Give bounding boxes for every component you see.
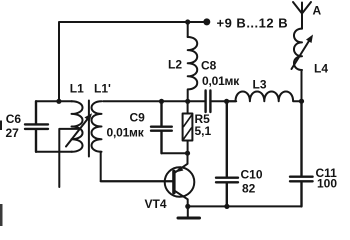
wire L1' bottom to transistor base <box>101 152 173 182</box>
inductor L1' <box>92 101 102 152</box>
node A1 feedback/rail junction <box>56 99 61 104</box>
svg-text:27: 27 <box>6 126 20 140</box>
capacitor C8 <box>206 91 211 113</box>
node L2 bottom / R5 top junction <box>185 99 190 104</box>
node C10 top / L3 left junction <box>224 99 229 104</box>
wire mid rail left from C6 to L1 top <box>36 100 72 102</box>
svg-text:5,1: 5,1 <box>195 124 212 138</box>
wire L1 tap down-lead (to modulator, cut off) <box>59 129 78 187</box>
arrow variable adjustment through L1 <box>66 117 90 147</box>
node C10 bottom junction <box>224 204 229 209</box>
wire top feedback rail +9V from node A1 to supply terminal <box>59 22 205 101</box>
svg-text:L2: L2 <box>168 58 182 72</box>
node C9 top junction <box>159 99 164 104</box>
wire mid rail right from L1' top to C8 <box>103 100 205 102</box>
svg-text:0,01мк: 0,01мк <box>107 126 145 140</box>
wire C8 right plate to C10/L3 node <box>212 100 237 102</box>
svg-text:L4: L4 <box>314 62 328 76</box>
wire transistor base lead <box>101 180 173 182</box>
svg-text:C9: C9 <box>130 111 146 125</box>
transistor VT4 <box>165 167 195 197</box>
svg-text:L3: L3 <box>253 78 267 92</box>
svg-text:100: 100 <box>317 177 337 191</box>
arrow variable adjustment through L4 <box>292 39 311 70</box>
node L2 top junction <box>185 19 190 24</box>
capacitor C10 <box>216 101 238 206</box>
node R5 bottom / emitter junction <box>185 151 190 156</box>
svg-text:C8: C8 <box>201 59 217 73</box>
node L4 / C11 column junction <box>299 99 304 104</box>
core line of L1/L1' transformer <box>88 101 90 157</box>
svg-text:+9 В...12 В: +9 В...12 В <box>217 16 289 31</box>
svg-text:L1': L1' <box>94 82 111 96</box>
svg-text:L1: L1 <box>70 82 84 96</box>
capacitor C11 <box>290 101 313 206</box>
svg-text:VT4: VT4 <box>145 197 167 211</box>
antenna A <box>293 2 311 14</box>
inductor L1 <box>72 101 83 152</box>
inductor L4 <box>294 29 302 102</box>
svg-text:82: 82 <box>242 182 256 196</box>
capacitor C6 <box>25 101 48 152</box>
supply terminal dot <box>203 18 210 25</box>
wire C9 bottom to emitter node <box>162 152 188 154</box>
wire C6 bottom to L1 bottom <box>36 151 72 153</box>
wire L2 top lead to supply rail <box>187 22 189 37</box>
wire bottom rail <box>188 205 302 207</box>
inductor L3 <box>227 91 302 101</box>
svg-text:A: A <box>313 4 322 18</box>
svg-text:C10: C10 <box>241 168 263 182</box>
svg-text:0,01мк: 0,01мк <box>202 74 240 88</box>
inductor L2 <box>188 37 198 101</box>
svg-text:C6: C6 <box>6 112 22 126</box>
resistor R5 <box>187 101 189 113</box>
ground <box>187 206 189 217</box>
node collector / bottom rail junction <box>185 204 190 209</box>
capacitor C9 <box>151 101 172 153</box>
